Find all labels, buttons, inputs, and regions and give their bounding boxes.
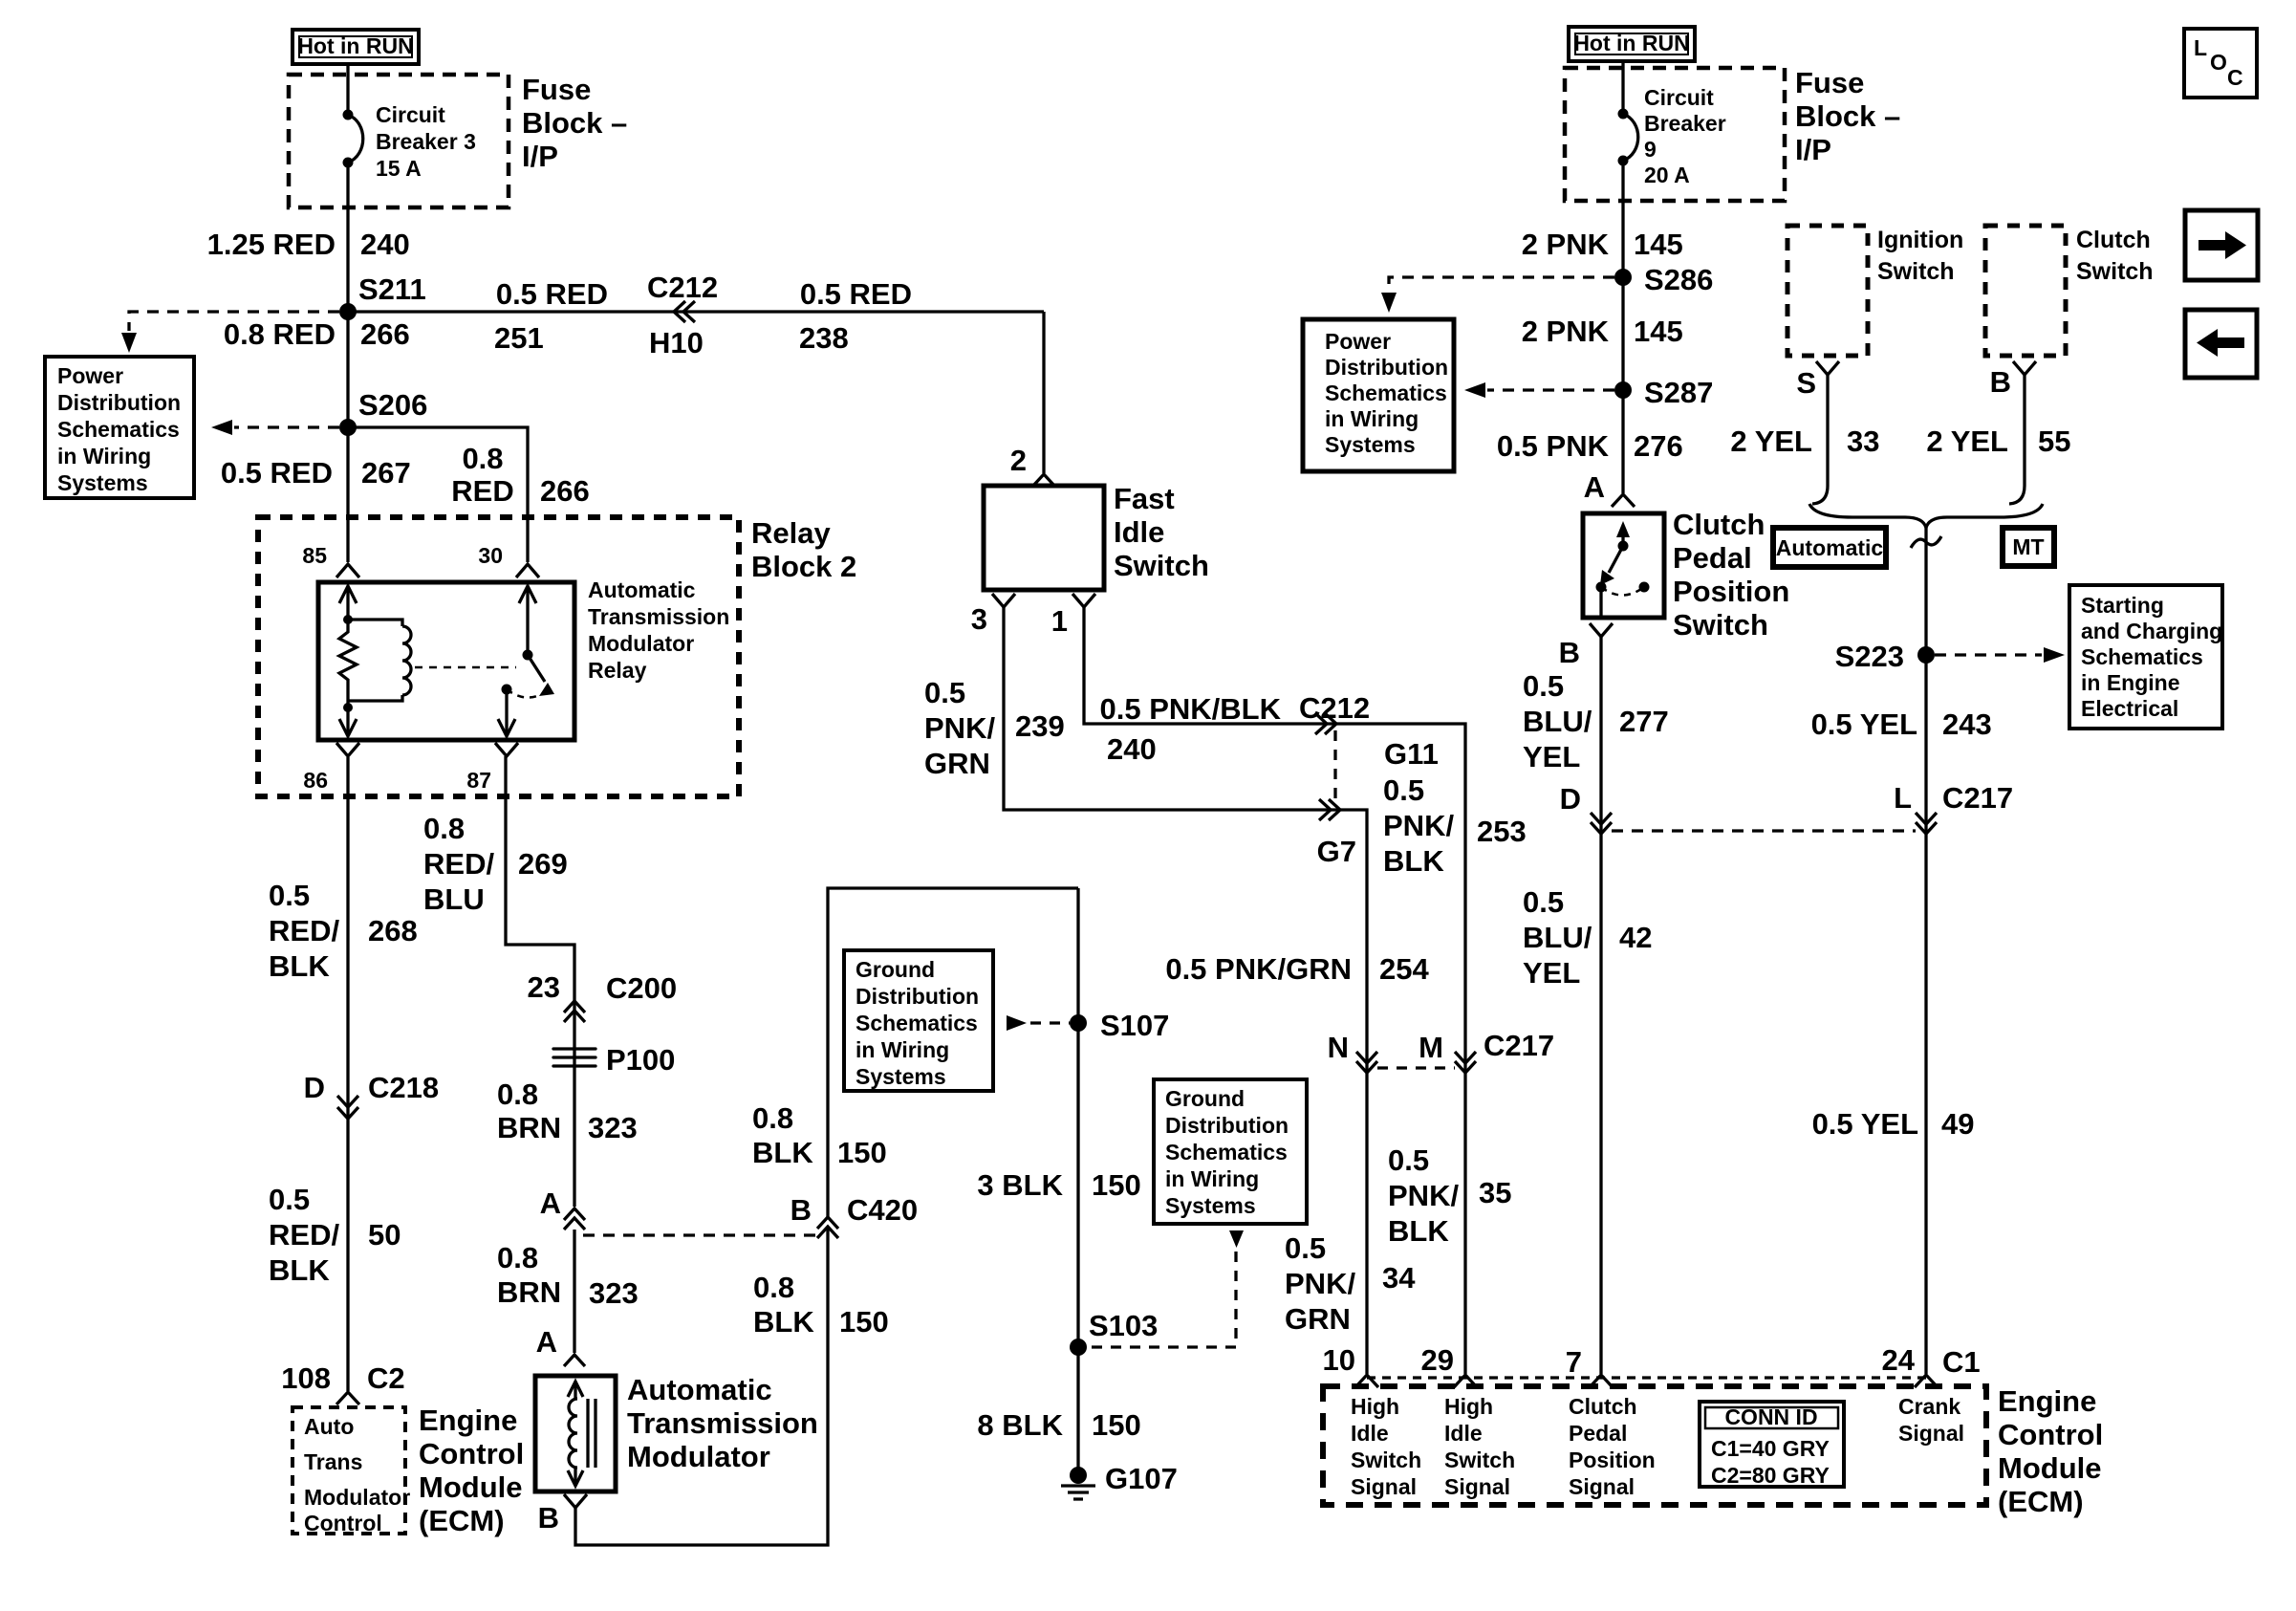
svg-text:Distribution: Distribution	[1325, 355, 1448, 380]
svg-text:0.5 RED: 0.5 RED	[496, 277, 608, 311]
svg-text:0.5: 0.5	[269, 879, 310, 912]
svg-text:PNK/: PNK/	[1383, 809, 1454, 842]
svg-text:High: High	[1351, 1394, 1399, 1419]
svg-text:55: 55	[2038, 425, 2070, 458]
svg-text:Automatic: Automatic	[1776, 535, 1884, 560]
svg-text:Transmission: Transmission	[588, 604, 729, 629]
svg-text:C218: C218	[368, 1071, 439, 1104]
svg-text:Signal: Signal	[1898, 1421, 1964, 1446]
svg-text:Systems: Systems	[1325, 432, 1416, 457]
svg-text:Relay: Relay	[588, 658, 647, 683]
svg-text:251: 251	[494, 321, 544, 355]
svg-text:Block –: Block –	[522, 106, 627, 140]
svg-text:0.8: 0.8	[752, 1101, 793, 1135]
svg-text:Control: Control	[304, 1511, 382, 1535]
svg-text:High: High	[1444, 1394, 1493, 1419]
svg-text:Breaker 3: Breaker 3	[376, 129, 476, 154]
svg-text:C2: C2	[367, 1361, 405, 1395]
svg-text:30: 30	[478, 543, 503, 568]
svg-text:Auto: Auto	[304, 1414, 354, 1439]
svg-text:2 PNK: 2 PNK	[1522, 228, 1610, 261]
svg-text:Crank: Crank	[1898, 1394, 1960, 1419]
svg-text:MT: MT	[2012, 534, 2044, 559]
svg-text:0.5 PNK: 0.5 PNK	[1497, 429, 1610, 463]
svg-text:Switch: Switch	[1351, 1448, 1421, 1472]
svg-text:B: B	[1559, 636, 1580, 669]
svg-text:23: 23	[528, 970, 560, 1004]
svg-text:Ignition: Ignition	[1877, 227, 1963, 253]
svg-text:323: 323	[588, 1111, 638, 1144]
svg-text:Signal: Signal	[1351, 1474, 1417, 1499]
svg-text:S103: S103	[1089, 1309, 1158, 1342]
svg-text:0.5: 0.5	[1388, 1143, 1429, 1177]
svg-text:A: A	[540, 1186, 561, 1220]
svg-text:150: 150	[839, 1305, 889, 1339]
svg-text:BLK: BLK	[269, 1253, 330, 1287]
svg-text:0.5: 0.5	[1523, 669, 1564, 703]
svg-text:C200: C200	[606, 971, 677, 1005]
svg-text:2 YEL: 2 YEL	[1926, 425, 2008, 458]
svg-text:267: 267	[361, 456, 411, 490]
svg-text:BLK: BLK	[1388, 1214, 1449, 1248]
svg-text:Schematics: Schematics	[856, 1011, 978, 1035]
svg-text:108: 108	[281, 1361, 331, 1395]
svg-text:Switch: Switch	[1114, 549, 1209, 582]
svg-text:Circuit: Circuit	[376, 102, 445, 127]
svg-text:Circuit: Circuit	[1644, 85, 1714, 110]
svg-text:0.5 RED: 0.5 RED	[800, 277, 912, 311]
svg-text:H10: H10	[649, 326, 704, 359]
svg-text:276: 276	[1634, 429, 1683, 463]
svg-text:G11: G11	[1384, 737, 1439, 771]
svg-text:254: 254	[1379, 952, 1429, 986]
svg-text:Transmission: Transmission	[627, 1406, 818, 1440]
svg-text:35: 35	[1479, 1176, 1511, 1209]
svg-text:323: 323	[589, 1276, 639, 1310]
svg-text:Trans: Trans	[304, 1449, 362, 1474]
svg-text:N: N	[1328, 1031, 1349, 1064]
svg-text:1.25 RED: 1.25 RED	[207, 228, 336, 261]
svg-text:15 A: 15 A	[376, 156, 422, 181]
svg-text:D: D	[1560, 782, 1581, 816]
svg-text:243: 243	[1942, 708, 1992, 741]
svg-text:42: 42	[1619, 921, 1652, 954]
svg-text:S286: S286	[1644, 263, 1713, 296]
svg-text:0.8: 0.8	[497, 1241, 538, 1274]
svg-text:in Wiring: in Wiring	[1325, 406, 1419, 431]
svg-text:in Wiring: in Wiring	[1165, 1166, 1259, 1191]
svg-text:253: 253	[1477, 815, 1527, 848]
svg-text:Fuse: Fuse	[1795, 66, 1864, 99]
svg-text:Power: Power	[57, 363, 123, 388]
svg-text:L: L	[2194, 35, 2207, 60]
svg-text:Fuse: Fuse	[522, 73, 591, 106]
svg-text:BLK: BLK	[1383, 844, 1444, 878]
svg-text:Clutch: Clutch	[1569, 1394, 1637, 1419]
svg-text:B: B	[538, 1501, 559, 1535]
svg-text:49: 49	[1941, 1107, 1974, 1141]
svg-text:Position: Position	[1673, 575, 1789, 608]
svg-text:Ground: Ground	[1165, 1086, 1245, 1111]
svg-text:C217: C217	[1484, 1029, 1554, 1062]
svg-text:S107: S107	[1100, 1009, 1169, 1042]
svg-text:150: 150	[1092, 1408, 1141, 1442]
svg-text:Hot in RUN: Hot in RUN	[297, 33, 413, 58]
svg-text:Electrical: Electrical	[2081, 696, 2178, 721]
svg-text:Automatic: Automatic	[627, 1373, 772, 1406]
svg-text:269: 269	[518, 847, 568, 881]
svg-text:Pedal: Pedal	[1673, 541, 1752, 575]
svg-text:3: 3	[971, 602, 987, 636]
svg-text:Schematics: Schematics	[1165, 1140, 1288, 1165]
svg-text:BLK: BLK	[753, 1305, 814, 1339]
svg-text:S206: S206	[358, 388, 427, 422]
svg-text:29: 29	[1421, 1343, 1454, 1377]
svg-text:RED/: RED/	[269, 914, 339, 947]
svg-text:10: 10	[1323, 1343, 1355, 1377]
svg-text:B: B	[791, 1193, 812, 1227]
svg-text:0.8: 0.8	[753, 1271, 794, 1304]
svg-text:BRN: BRN	[497, 1275, 561, 1309]
svg-text:Distribution: Distribution	[57, 390, 181, 415]
svg-text:Relay: Relay	[751, 516, 831, 550]
svg-text:Engine: Engine	[1998, 1384, 2096, 1418]
svg-text:YEL: YEL	[1523, 740, 1580, 773]
svg-text:C: C	[2227, 65, 2243, 90]
svg-text:(ECM): (ECM)	[419, 1504, 505, 1537]
svg-text:PNK/: PNK/	[1388, 1179, 1459, 1212]
svg-text:Power: Power	[1325, 329, 1391, 354]
svg-text:BRN: BRN	[497, 1111, 561, 1144]
svg-text:Clutch: Clutch	[2076, 227, 2151, 253]
svg-text:240: 240	[360, 228, 410, 261]
svg-text:277: 277	[1619, 705, 1669, 738]
svg-text:Switch: Switch	[1877, 258, 1955, 285]
svg-text:145: 145	[1634, 228, 1683, 261]
svg-text:0.5: 0.5	[1383, 773, 1424, 807]
svg-text:A: A	[1584, 470, 1605, 504]
svg-text:34: 34	[1382, 1261, 1416, 1295]
svg-text:50: 50	[368, 1218, 401, 1252]
svg-text:Signal: Signal	[1444, 1474, 1510, 1499]
svg-text:Systems: Systems	[1165, 1193, 1256, 1218]
svg-text:BLK: BLK	[752, 1136, 813, 1169]
svg-text:0.5 PNK/BLK: 0.5 PNK/BLK	[1100, 692, 1282, 726]
svg-text:2 YEL: 2 YEL	[1730, 425, 1812, 458]
svg-text:86: 86	[303, 768, 328, 793]
svg-text:Modulator: Modulator	[627, 1440, 770, 1473]
svg-text:C212: C212	[1299, 691, 1370, 725]
svg-text:S211: S211	[358, 272, 426, 306]
svg-text:O: O	[2210, 50, 2227, 75]
svg-text:YEL: YEL	[1523, 956, 1580, 990]
svg-text:Starting: Starting	[2081, 593, 2164, 618]
svg-text:Module: Module	[1998, 1451, 2102, 1485]
svg-text:150: 150	[837, 1136, 887, 1169]
svg-text:M: M	[1419, 1031, 1443, 1064]
svg-text:G7: G7	[1317, 835, 1356, 868]
svg-text:D: D	[304, 1071, 325, 1104]
svg-text:0.8: 0.8	[423, 812, 465, 845]
svg-text:Fast: Fast	[1114, 482, 1175, 515]
svg-text:Hot in RUN: Hot in RUN	[1573, 31, 1689, 55]
svg-text:S: S	[1796, 366, 1816, 400]
svg-text:(ECM): (ECM)	[1998, 1485, 2084, 1518]
svg-text:in Wiring: in Wiring	[856, 1037, 949, 1062]
svg-text:0.5 PNK/GRN: 0.5 PNK/GRN	[1165, 952, 1352, 986]
svg-text:Signal: Signal	[1569, 1474, 1635, 1499]
svg-text:Systems: Systems	[57, 470, 148, 495]
svg-text:C217: C217	[1942, 781, 2013, 815]
svg-text:Switch: Switch	[2076, 258, 2154, 285]
svg-text:C212: C212	[647, 271, 718, 304]
svg-text:Idle: Idle	[1444, 1421, 1483, 1446]
svg-text:G107: G107	[1105, 1462, 1178, 1495]
svg-text:Module: Module	[419, 1470, 523, 1504]
svg-text:33: 33	[1847, 425, 1879, 458]
svg-text:Switch: Switch	[1673, 608, 1768, 642]
svg-text:0.5: 0.5	[924, 676, 965, 709]
svg-text:Block 2: Block 2	[751, 550, 856, 583]
svg-text:266: 266	[360, 317, 410, 351]
svg-text:1: 1	[1051, 604, 1068, 638]
svg-text:0.8: 0.8	[462, 442, 503, 475]
svg-text:Control: Control	[1998, 1418, 2103, 1451]
svg-text:Pedal: Pedal	[1569, 1421, 1627, 1446]
svg-text:20 A: 20 A	[1644, 163, 1690, 187]
svg-text:0.8: 0.8	[497, 1078, 538, 1111]
svg-text:Modulator: Modulator	[588, 631, 694, 656]
svg-text:Systems: Systems	[856, 1064, 946, 1089]
svg-text:S223: S223	[1835, 640, 1904, 673]
svg-text:Engine: Engine	[419, 1404, 517, 1437]
svg-text:BLU: BLU	[423, 882, 485, 916]
svg-text:in Engine: in Engine	[2081, 670, 2180, 695]
svg-text:I/P: I/P	[1795, 133, 1831, 166]
svg-text:L: L	[1894, 781, 1912, 815]
svg-text:RED: RED	[451, 474, 513, 508]
svg-text:C1: C1	[1942, 1345, 1981, 1379]
svg-text:GRN: GRN	[1285, 1302, 1351, 1336]
svg-text:Idle: Idle	[1351, 1421, 1389, 1446]
svg-text:P100: P100	[606, 1043, 675, 1077]
svg-text:Control: Control	[419, 1437, 524, 1470]
svg-text:Schematics: Schematics	[1325, 381, 1447, 405]
svg-text:C1=40 GRY: C1=40 GRY	[1711, 1436, 1830, 1461]
svg-text:238: 238	[799, 321, 849, 355]
svg-text:239: 239	[1015, 709, 1065, 743]
svg-text:PNK/: PNK/	[1285, 1267, 1355, 1300]
svg-text:145: 145	[1634, 315, 1683, 348]
svg-text:C2=80 GRY: C2=80 GRY	[1711, 1463, 1830, 1488]
svg-text:in Wiring: in Wiring	[57, 444, 151, 468]
svg-text:and Charging: and Charging	[2081, 619, 2222, 643]
svg-text:PNK/: PNK/	[924, 711, 995, 745]
svg-text:150: 150	[1092, 1168, 1141, 1202]
svg-text:0.5 YEL: 0.5 YEL	[1811, 708, 1917, 741]
svg-text:268: 268	[368, 914, 418, 947]
svg-text:Ground: Ground	[856, 957, 935, 982]
svg-text:RED/: RED/	[423, 847, 494, 881]
svg-text:GRN: GRN	[924, 747, 990, 780]
svg-text:S287: S287	[1644, 376, 1713, 409]
svg-text:A: A	[536, 1325, 557, 1359]
svg-text:RED/: RED/	[269, 1218, 339, 1252]
svg-text:C420: C420	[847, 1193, 918, 1227]
svg-text:Clutch: Clutch	[1673, 508, 1765, 541]
svg-text:Position: Position	[1569, 1448, 1656, 1472]
svg-text:0.5: 0.5	[1285, 1231, 1326, 1265]
svg-text:Modulator: Modulator	[304, 1485, 410, 1510]
svg-text:CONN ID: CONN ID	[1724, 1404, 1817, 1429]
svg-text:2 PNK: 2 PNK	[1522, 315, 1610, 348]
svg-text:24: 24	[1882, 1343, 1916, 1377]
svg-text:BLU/: BLU/	[1523, 705, 1592, 738]
svg-text:Distribution: Distribution	[856, 984, 979, 1009]
svg-text:87: 87	[466, 768, 491, 793]
svg-text:0.5 YEL: 0.5 YEL	[1812, 1107, 1918, 1141]
svg-text:0.5: 0.5	[1523, 885, 1564, 919]
svg-text:85: 85	[302, 543, 327, 568]
svg-text:B: B	[1990, 365, 2011, 399]
svg-text:266: 266	[540, 474, 590, 508]
svg-text:240: 240	[1107, 732, 1157, 766]
svg-text:Schematics: Schematics	[57, 417, 180, 442]
svg-text:Distribution: Distribution	[1165, 1113, 1289, 1138]
svg-text:I/P: I/P	[522, 140, 558, 173]
svg-text:Breaker: Breaker	[1644, 111, 1726, 136]
svg-text:0.8 RED: 0.8 RED	[224, 317, 336, 351]
svg-text:0.5: 0.5	[269, 1183, 310, 1216]
svg-text:0.5 RED: 0.5 RED	[221, 456, 333, 490]
svg-text:BLU/: BLU/	[1523, 921, 1592, 954]
svg-text:7: 7	[1566, 1345, 1582, 1379]
svg-text:Switch: Switch	[1444, 1448, 1515, 1472]
svg-text:Schematics: Schematics	[2081, 644, 2203, 669]
svg-text:Block –: Block –	[1795, 99, 1900, 133]
svg-text:9: 9	[1644, 137, 1657, 162]
svg-text:3 BLK: 3 BLK	[977, 1168, 1063, 1202]
svg-text:8 BLK: 8 BLK	[977, 1408, 1063, 1442]
svg-text:Idle: Idle	[1114, 515, 1164, 549]
svg-text:Automatic: Automatic	[588, 577, 696, 602]
svg-text:BLK: BLK	[269, 949, 330, 983]
svg-text:2: 2	[1010, 444, 1027, 477]
